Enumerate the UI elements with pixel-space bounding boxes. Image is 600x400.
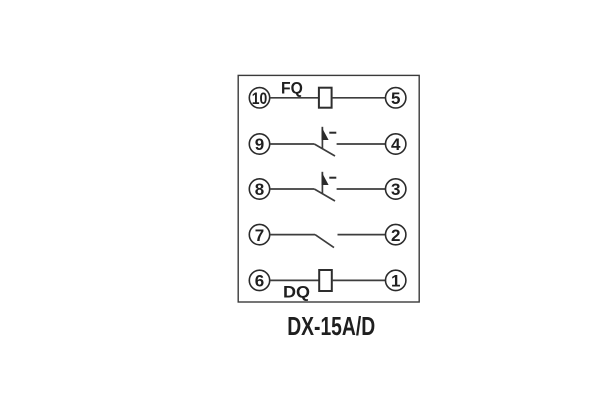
contact blade row3	[314, 189, 335, 201]
contact flag triangle row2	[322, 127, 329, 140]
contact flag pole row3	[321, 172, 323, 194]
wire contact to 4	[337, 143, 386, 145]
svg-text:DQ: DQ	[283, 283, 310, 302]
wire 8 to contact	[270, 188, 315, 190]
svg-text:4: 4	[391, 135, 401, 154]
terminal 4	[386, 134, 406, 154]
svg-text:6: 6	[255, 272, 264, 291]
contact flag pole row2	[321, 127, 323, 149]
wire 6 to coil DQ	[270, 279, 320, 281]
coil FQ	[319, 88, 332, 108]
terminal 8	[249, 179, 269, 199]
svg-text:9: 9	[255, 135, 264, 154]
wire 9 to contact	[270, 143, 315, 145]
terminal 5	[386, 88, 406, 108]
coil DQ	[319, 270, 332, 291]
svg-text:5: 5	[391, 89, 400, 108]
terminal 3	[386, 179, 406, 199]
relay outline box	[238, 75, 419, 302]
contact blade row2	[314, 144, 335, 156]
terminal 9	[249, 134, 269, 154]
wire contact to 2	[338, 234, 386, 236]
wire coil FQ to 5	[332, 97, 386, 99]
contact flag triangle row3	[322, 172, 329, 185]
wire 10 to coil FQ	[270, 97, 319, 99]
terminal 10	[249, 88, 269, 108]
contact dash row3	[329, 177, 336, 179]
contact dash row2	[329, 132, 336, 134]
wire 7 to contact	[270, 234, 315, 236]
svg-text:8: 8	[255, 180, 264, 199]
svg-text:10: 10	[252, 89, 268, 108]
terminal 6	[249, 270, 269, 290]
wire coil DQ to 1	[332, 279, 386, 281]
svg-text:DX-15A/D: DX-15A/D	[287, 313, 375, 341]
terminal 1	[386, 270, 406, 290]
svg-text:1: 1	[391, 272, 400, 291]
terminal 7	[249, 224, 269, 244]
terminal 2	[386, 224, 406, 244]
svg-text:FQ: FQ	[281, 80, 303, 98]
wire contact to 3	[337, 188, 386, 190]
svg-text:7: 7	[255, 226, 264, 245]
svg-text:2: 2	[391, 226, 400, 245]
contact blade row4	[315, 235, 334, 248]
svg-text:3: 3	[391, 180, 400, 199]
